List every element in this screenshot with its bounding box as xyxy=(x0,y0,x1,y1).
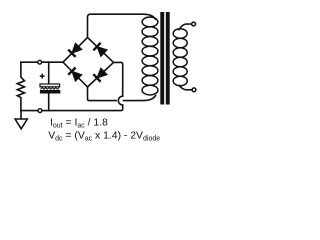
capacitor C leads xyxy=(48,62,50,84)
wire: bridge top vertex up and right to transformer secondary top xyxy=(88,14,156,37)
node: DC- output terminal (open circle on bottom rail) xyxy=(38,109,42,113)
transformer T1 primary winding (right coil) xyxy=(173,29,187,86)
wire: bridge right vertex (DC-) right, down, hop over AC wire, to bottom rail going left xyxy=(114,62,123,96)
capacitor C plus sign xyxy=(40,74,45,79)
capacitor C top plate (outlined) xyxy=(40,84,60,87)
wire: bridge bottom vertex down then right to transformer secondary bottom xyxy=(88,87,156,101)
svg-text:Vdc = (Vac x 1.4) - 2Vdiode: Vdc = (Vac x 1.4) - 2Vdiode xyxy=(48,131,160,143)
transformer T1 core xyxy=(160,12,164,105)
capacitor C bottom plate (solid) xyxy=(40,90,60,94)
transformer T1 secondary winding (left coil) xyxy=(142,17,158,95)
node: DC+ output terminal (open circle on top wire) xyxy=(38,60,42,64)
wire: primary bottom lead to terminal xyxy=(179,85,193,90)
resistor R (load) xyxy=(17,62,24,110)
capacitor C hatch xyxy=(41,88,60,90)
wire: DC+ node, bridge left vertex to resistor top xyxy=(21,61,63,63)
diode D1 (top-left, top vertex -> left vertex) xyxy=(63,37,88,62)
diode D4 (bottom-right, right vertex -> bottom vertex) xyxy=(88,62,114,87)
wire: primary top lead to terminal xyxy=(179,24,192,30)
svg-text:Iout = Iac / 1.8: Iout = Iac / 1.8 xyxy=(50,118,108,130)
diode D2 (top-right, right vertex -> top vertex) xyxy=(88,37,114,62)
ground xyxy=(20,111,22,119)
wire hop (crossover arc) xyxy=(118,96,122,105)
terminal: AC input top (open circle) xyxy=(192,22,196,26)
wire gap at crossover xyxy=(118,99,121,102)
terminal: AC input bottom (open circle) xyxy=(192,88,196,92)
diode D3 (bottom-left, bottom vertex -> left vertex) xyxy=(63,62,88,87)
